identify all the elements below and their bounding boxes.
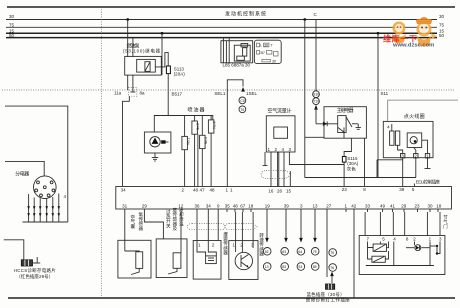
inline connectors at main relay — [313, 91, 320, 105]
module wires — [366, 242, 440, 266]
coil pins 3 2 1 — [401, 153, 430, 158]
sensor box B coolant temp — [156, 239, 187, 278]
diagnosis plug arrow up — [330, 272, 334, 284]
svg-text:空气囊: 空气囊 — [131, 214, 136, 230]
svg-text:SEL1: SEL1 — [214, 91, 226, 96]
jumper wire from L85 to SEL nodes — [227, 80, 243, 90]
ECU bottom pin ticks — [125, 209, 438, 212]
wire ECU 13 arrow — [313, 212, 317, 243]
ECU bottom pin numbers — [122, 204, 442, 209]
extra injector return wire — [197, 134, 199, 186]
svg-text:5: 5 — [412, 187, 415, 192]
label 爆震传感器 — [223, 231, 228, 256]
svg-text:34: 34 — [121, 188, 127, 193]
wire ECU 19 arrow — [265, 212, 269, 243]
svg-text:转速传感器: 转速传感器 — [259, 232, 264, 257]
spark plug wires with arrows — [27, 194, 60, 223]
svg-text:发动机控制系统: 发动机控制系统 — [225, 11, 266, 18]
svg-text:2: 2 — [182, 188, 185, 193]
svg-text:T: T — [271, 44, 274, 48]
svg-text:52: 52 — [265, 250, 269, 254]
injector supply rail — [154, 116, 213, 133]
svg-text:19: 19 — [265, 204, 271, 209]
svg-text:33: 33 — [365, 204, 371, 209]
distributor feed wire 4 — [5, 106, 68, 222]
svg-text:23: 23 — [415, 204, 421, 209]
wire bus30 to fuel pump relay — [126, 18, 129, 57]
wire bus15 to relay coil — [161, 32, 164, 75]
node C — [314, 12, 318, 17]
bus 75 — [6, 22, 445, 27]
svg-text:S10: S10 — [313, 93, 319, 97]
injector No.1 — [182, 116, 191, 187]
svg-text:13: 13 — [313, 204, 319, 209]
module pin numbers — [367, 236, 443, 241]
SEL dashed rail horizontal — [2, 89, 454, 91]
svg-text:S11: S11 — [381, 91, 389, 96]
svg-text:39: 39 — [284, 204, 290, 209]
wire relay box left to pin8 rail — [305, 136, 324, 138]
svg-text:T6: T6 — [240, 108, 244, 112]
svg-text:67: 67 — [240, 204, 246, 209]
label ECU控制插座 — [416, 179, 441, 186]
relay module L85 box — [221, 38, 253, 63]
svg-text:L: L — [260, 44, 262, 48]
label 空气囊 氧传感器 — [131, 211, 144, 232]
svg-text:48: 48 — [193, 188, 199, 193]
label 节气门 — [443, 215, 448, 230]
control module box — [359, 236, 445, 275]
wire coil pin2 to feed rail — [415, 158, 417, 178]
injector No.3 — [200, 116, 209, 187]
svg-text:www.dzsc.com: www.dzsc.com — [392, 43, 434, 49]
main relay coil — [338, 116, 352, 133]
svg-text:1: 1 — [198, 242, 201, 247]
svg-text:分电器: 分电器 — [15, 171, 29, 178]
svg-text:42: 42 — [351, 204, 357, 209]
spark collector wire — [23, 221, 68, 223]
main relay ground — [352, 124, 361, 130]
ignition coil label 点火线圈 — [404, 113, 425, 120]
svg-text:63: 63 — [282, 250, 286, 254]
svg-text:4: 4 — [282, 147, 285, 152]
svg-text:(53,100)继电器: (53,100)继电器 — [123, 48, 161, 55]
under-coil link wire — [377, 160, 403, 178]
wires ECU to control module — [365, 212, 440, 236]
svg-text:50: 50 — [439, 33, 445, 38]
svg-text:83: 83 — [282, 265, 286, 269]
label 蓝色插座(30号) 故障诊断灯工作插座 — [306, 291, 351, 304]
svg-text:1: 1 — [429, 236, 432, 241]
wire ECU pin1 from jumper — [226, 90, 228, 187]
svg-text:26: 26 — [277, 188, 283, 193]
svg-text:5: 5 — [382, 236, 385, 241]
ignition coil box — [383, 121, 433, 157]
fuel pump ground — [152, 153, 158, 161]
wire ECU 42 to ground — [353, 212, 355, 298]
label L85 6887a 30 — [223, 62, 251, 67]
svg-text:3: 3 — [439, 236, 442, 241]
wire ECU 3 arrow — [299, 212, 303, 243]
distributor coil wire — [5, 161, 44, 176]
svg-text:氧传感器: 氧传感器 — [139, 211, 144, 232]
watermark mascots — [392, 17, 437, 47]
svg-text:30: 30 — [264, 43, 268, 47]
svg-text:49: 49 — [380, 204, 386, 209]
svg-text:C5: C5 — [240, 99, 245, 103]
svg-text:35: 35 — [225, 204, 231, 209]
connector terminal circles row — [263, 248, 336, 272]
wire ECU 39 arrow — [284, 212, 288, 243]
arrow into main relay wire — [314, 105, 318, 124]
svg-text:36: 36 — [195, 204, 201, 209]
coil interior wires — [398, 140, 428, 153]
relay contact wire loop to fuse — [155, 53, 168, 67]
svg-text:2: 2 — [413, 236, 416, 241]
test point connector circles C/T — [239, 97, 246, 113]
wire relay contact to fuse S115 — [344, 138, 351, 156]
svg-text:41: 41 — [390, 204, 396, 209]
svg-text:93: 93 — [298, 265, 302, 269]
svg-text:39: 39 — [399, 187, 405, 192]
svg-text:空气流量计: 空气流量计 — [268, 108, 292, 115]
svg-text:过热开关: 过热开关 — [166, 209, 171, 230]
svg-text:13: 13 — [265, 265, 269, 269]
watermark 维库一下 — [383, 34, 417, 44]
ECU top pin 5 tick — [414, 184, 416, 187]
svg-text:48: 48 — [210, 188, 216, 193]
svg-text:灰色: 灰色 — [347, 166, 357, 173]
wire 8a down to ECU pin 34 — [123, 96, 130, 186]
svg-text:(30A): (30A) — [347, 161, 359, 166]
wire coil pin1 terminal end — [425, 158, 431, 169]
svg-text:75: 75 — [439, 22, 445, 27]
svg-text:T19: T19 — [313, 100, 319, 104]
module junction dots — [430, 245, 438, 255]
ECU U1 box — [116, 187, 452, 210]
svg-text:48: 48 — [233, 204, 239, 209]
fuel pump relay label 燃油泵(53,100)继电器 — [123, 43, 161, 55]
svg-text:（红色插座29号）: （红色插座29号） — [16, 273, 53, 280]
svg-text:爆震传感器: 爆震传感器 — [223, 231, 228, 256]
fuse S113 (20A) — [166, 66, 185, 77]
feed rail horizontal — [305, 177, 416, 179]
fuel pump motor symbol — [150, 137, 169, 147]
svg-text:50: 50 — [9, 33, 15, 38]
label 冷却液温度传感器及过热开关 — [166, 207, 184, 232]
svg-text:76: 76 — [330, 266, 334, 270]
svg-text:2: 2 — [275, 147, 278, 152]
svg-text:31: 31 — [122, 204, 128, 209]
wires ECU 36 34 9 to box C — [197, 212, 218, 245]
node SEL1 — [214, 91, 226, 96]
svg-text:15: 15 — [286, 188, 292, 193]
diode main relay — [316, 121, 338, 126]
svg-text:B517: B517 — [172, 92, 183, 97]
svg-text:29: 29 — [401, 204, 407, 209]
diagnosis plug block — [326, 284, 335, 289]
wire fuse to node B517 to injector rail — [168, 74, 182, 116]
node 1SEL arrow — [241, 87, 257, 96]
harness oval AFM — [261, 171, 291, 179]
svg-text:30: 30 — [272, 59, 276, 63]
svg-text:No.4: No.4 — [213, 121, 217, 128]
injector rail label 喷油器 — [188, 107, 205, 114]
svg-text:1: 1 — [345, 204, 348, 209]
knock sensor symbol — [235, 252, 252, 269]
svg-text:1: 1 — [226, 188, 229, 193]
wire bus30 to main relay connectors — [315, 20, 317, 92]
knock sensor box D — [229, 241, 258, 280]
svg-text:2: 2 — [240, 242, 243, 247]
svg-text:No.3: No.3 — [204, 137, 208, 144]
svg-text:节气门: 节气门 — [443, 215, 448, 230]
wire ECU 27 — [326, 212, 328, 277]
coil primary winding — [390, 124, 400, 145]
svg-text:7: 7 — [367, 236, 370, 241]
fuse S115 (30A) 灰色 — [342, 156, 358, 172]
svg-text:23: 23 — [342, 187, 348, 192]
svg-text:2: 2 — [212, 242, 215, 247]
svg-text:8: 8 — [406, 236, 409, 241]
wire bus50 to fuel pump relay — [132, 38, 134, 57]
svg-text:No.1: No.1 — [187, 138, 191, 145]
wire relay output to ECU pin 8 — [364, 138, 366, 186]
svg-text:(20A): (20A) — [174, 72, 186, 77]
HCCS connector block — [21, 260, 32, 266]
module relay contact — [372, 256, 385, 262]
coil distributor unit — [407, 133, 422, 148]
fuel pump relay inner box — [137, 59, 156, 72]
svg-text:64: 64 — [298, 250, 302, 254]
svg-text:29: 29 — [142, 204, 148, 209]
svg-text:16: 16 — [268, 188, 274, 193]
relay coil element — [145, 62, 150, 72]
svg-text:4: 4 — [393, 236, 396, 241]
air flow meter box — [266, 116, 295, 152]
svg-text:18: 18 — [248, 204, 254, 209]
svg-text:点火线圈: 点火线圈 — [404, 113, 425, 120]
distributor cap — [34, 176, 57, 199]
svg-text:B7: B7 — [261, 51, 265, 55]
svg-text:3: 3 — [300, 204, 303, 209]
bus 30 — [6, 14, 445, 20]
svg-text:30: 30 — [428, 204, 434, 209]
wire relay pin to 11a — [114, 75, 128, 95]
fuel pump relay K outer box — [125, 56, 162, 75]
section border dashed vertical — [100, 7, 102, 298]
injector No.4 — [208, 116, 216, 187]
title 发动机控制系统 — [225, 11, 266, 18]
svg-text:8a: 8a — [140, 91, 146, 96]
fuel pump box — [144, 132, 171, 153]
sensor box C — [193, 241, 221, 280]
svg-text:75: 75 — [330, 251, 334, 255]
svg-text:1SEL: 1SEL — [246, 91, 258, 96]
svg-text:4: 4 — [387, 125, 390, 130]
bus 15 — [6, 28, 445, 33]
label 主继电器 — [337, 107, 354, 114]
svg-text:冷却液温: 冷却液温 — [179, 207, 184, 228]
svg-text:C: C — [314, 12, 318, 17]
svg-text:11a: 11a — [114, 91, 122, 96]
wire bus30 down to pin8 rail — [303, 18, 306, 177]
wire ECU 29 jog to sensor box — [144, 212, 163, 239]
svg-text:度传感器及: 度传感器及 — [173, 207, 178, 232]
wire ECU 31 to oxygen sensor — [124, 212, 126, 251]
svg-text:3: 3 — [289, 147, 292, 152]
svg-text:47: 47 — [200, 188, 206, 193]
ground bus 31 bottom — [8, 297, 455, 299]
wire fuse S115 to ECU pin 23 — [343, 162, 345, 186]
svg-text:喷油器: 喷油器 — [188, 107, 205, 114]
svg-text:75: 75 — [9, 22, 15, 27]
svg-text:1: 1 — [230, 188, 233, 193]
svg-text:1: 1 — [268, 147, 271, 152]
watermark www.dzsc.com — [392, 43, 434, 49]
HCCS wire — [4, 240, 24, 260]
svg-text:ECU控制插座: ECU控制插座 — [416, 179, 441, 186]
svg-text:9: 9 — [217, 204, 220, 209]
svg-text:L85 6887a 30: L85 6887a 30 — [223, 62, 251, 67]
svg-text:30: 30 — [9, 14, 15, 19]
wire coil pin3 to ECU pin 39 — [402, 158, 404, 187]
label 分电器 — [15, 171, 29, 178]
svg-text:4: 4 — [64, 194, 67, 199]
frame top line — [7, 6, 455, 8]
label HCCS诊断存电路片(红色插座29号) — [14, 267, 57, 280]
wire ECU 12 to temp sensor — [180, 212, 182, 253]
main relay box — [324, 107, 366, 139]
svg-text:30: 30 — [439, 14, 445, 19]
svg-text:1: 1 — [233, 242, 236, 247]
svg-text:故障诊断灯工作插座: 故障诊断灯工作插座 — [306, 296, 351, 303]
svg-text:27: 27 — [326, 204, 332, 209]
bus 50 — [6, 33, 445, 38]
AFM wires to ECU — [271, 152, 344, 187]
module relay coil — [373, 244, 386, 251]
connector pinout rounded box — [254, 40, 281, 63]
svg-text:18: 18 — [436, 204, 442, 209]
HCCS ground — [33, 257, 41, 263]
svg-text:75: 75 — [313, 250, 317, 254]
harness oval left — [187, 224, 225, 230]
svg-text:8: 8 — [363, 187, 366, 192]
label 转速传感器 — [259, 232, 264, 257]
sensor box A — [118, 240, 151, 278]
connector 8a with terminal — [128, 75, 145, 96]
svg-text:34: 34 — [206, 204, 212, 209]
main relay contact — [338, 127, 344, 138]
svg-text:No.2: No.2 — [196, 123, 200, 130]
svg-text:主继电器: 主继电器 — [337, 107, 354, 114]
AFM wire pin1 dead end terminal — [263, 152, 268, 166]
module indicator diode — [415, 245, 421, 251]
harness oval right — [224, 224, 257, 230]
shielded wires to knock sensor — [236, 212, 254, 252]
wire bus15 to S11 branch — [377, 32, 389, 178]
air flow meter label 空气流量计 — [268, 108, 292, 115]
svg-text:85: 85 — [313, 265, 317, 269]
ignition coil feed wire — [388, 100, 458, 121]
ECU top pin numbers — [121, 187, 415, 193]
injector No.2 — [192, 116, 200, 187]
